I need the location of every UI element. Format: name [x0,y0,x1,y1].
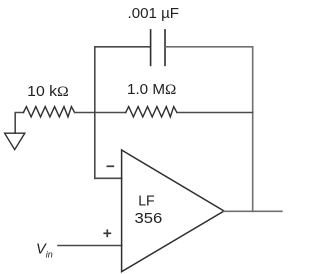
wire R2 to output rail [177,112,253,114]
capacitor C1 plates [151,30,165,66]
op-amp non-inverting input label + [103,229,111,237]
svg-text:356: 356 [135,211,163,227]
wire output rail vertical [252,47,254,212]
wire top right (capacitor right plate to output rail) [166,46,253,48]
wire output [224,210,282,212]
svg-text:LF: LF [138,194,155,210]
op-amp U1 triangle [122,150,224,272]
wire ground stub [15,113,23,134]
op-amp inverting input label - [107,165,115,167]
svg-text:1.0 MΩ: 1.0 MΩ [127,82,177,98]
ground [5,133,25,149]
svg-text:.001 µF: .001 µF [128,6,180,22]
svg-text:in: in [46,249,53,259]
wire inverting input [95,177,122,179]
wire feedback left vertical (inverting node to top rail) [94,47,96,179]
resistor R1 10 kOhm zigzag [23,107,74,117]
wire R1 to inverting node [75,112,126,114]
wire top left (to capacitor left plate) [95,46,150,48]
resistor R2 1.0 MOhm zigzag [126,107,177,117]
svg-text:10 kΩ: 10 kΩ [27,84,69,100]
wire non-inverting input [58,245,122,247]
